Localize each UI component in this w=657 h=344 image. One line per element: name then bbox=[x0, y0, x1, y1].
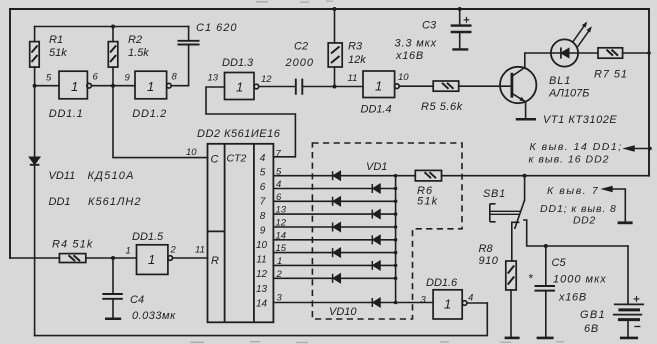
diode VD1 (row 1) bbox=[333, 171, 341, 180]
svg-text:5: 5 bbox=[276, 167, 282, 178]
ground R8 bbox=[505, 337, 520, 340]
wire matrix row 10 (pin 3) to DD1.6 input bbox=[273, 302, 433, 304]
svg-text:5: 5 bbox=[260, 167, 266, 178]
wire C3 leads bbox=[459, 9, 461, 48]
wire R4 to DD1.5 input bbox=[86, 257, 137, 259]
capacitor C5 (electrolytic) bbox=[535, 286, 556, 291]
wire oscillator top node (R1,R2,C1) bbox=[35, 26, 189, 28]
svg-text:DD1.2: DD1.2 bbox=[132, 108, 167, 120]
svg-text:R4 51k: R4 51k bbox=[52, 239, 93, 251]
wire matrix row 5 (pin 12) bbox=[273, 226, 395, 228]
svg-text:3.3 мкх: 3.3 мкх bbox=[395, 38, 438, 50]
wire matrix row 2 (pin 4) bbox=[273, 188, 395, 190]
svg-text:C3: C3 bbox=[422, 20, 437, 32]
wire left frame down to R4 row bbox=[9, 9, 11, 258]
svg-text:1.5k: 1.5k bbox=[128, 47, 149, 59]
pushbutton SB1 bbox=[490, 200, 525, 229]
wire C5 leads bbox=[545, 246, 547, 337]
svg-text:VD11: VD11 bbox=[49, 170, 76, 182]
svg-text:C4: C4 bbox=[130, 294, 144, 306]
svg-text:2: 2 bbox=[276, 269, 283, 280]
wire matrix row 9 (pin 2) bbox=[273, 277, 395, 279]
wire bottom return from DD1.6 bbox=[35, 303, 488, 336]
ground C3 bbox=[452, 48, 468, 50]
diode VD11 bbox=[30, 157, 40, 165]
svg-text:1: 1 bbox=[444, 297, 451, 312]
LED emission arrows bbox=[572, 22, 592, 47]
ground pins 7/8 stub bbox=[618, 221, 633, 224]
wire DD1.5 output to counter R input bbox=[173, 257, 208, 259]
resistor R8 bbox=[506, 261, 516, 290]
wire R5 to VT1 base bbox=[459, 85, 511, 87]
svg-text:1: 1 bbox=[147, 79, 154, 94]
svg-text:к выв. 16 DD2: к выв. 16 DD2 bbox=[529, 154, 610, 166]
svg-text:х16В: х16В bbox=[558, 292, 587, 304]
svg-text:DD1.5: DD1.5 bbox=[132, 231, 164, 243]
wire VT1 emitter to ground bbox=[513, 94, 526, 118]
wire DD1.3 output to C2 bbox=[259, 86, 296, 88]
arrow to pins 7 DD1 / 8 DD2 bbox=[600, 186, 612, 193]
inverter DD1.6 bbox=[433, 290, 467, 319]
svg-text:8: 8 bbox=[172, 72, 178, 83]
battery GB1 bbox=[613, 296, 644, 327]
svg-text:6: 6 bbox=[93, 72, 99, 83]
wire right frame down to switch rail bbox=[648, 9, 650, 176]
svg-text:DD1.4: DD1.4 bbox=[361, 104, 392, 116]
svg-text:GB1: GB1 bbox=[580, 309, 606, 321]
inverter DD1.4 bbox=[363, 71, 399, 98]
svg-text:11: 11 bbox=[195, 245, 205, 256]
resistor R4 bbox=[59, 254, 85, 263]
svg-text:R3: R3 bbox=[348, 41, 363, 53]
resistor R5 bbox=[433, 81, 459, 91]
svg-text:0.033мк: 0.033мк bbox=[132, 310, 176, 322]
svg-text:13: 13 bbox=[208, 73, 219, 84]
svg-text:10: 10 bbox=[398, 72, 409, 83]
svg-text:3: 3 bbox=[421, 295, 427, 306]
svg-text:1: 1 bbox=[126, 246, 131, 257]
wire R1 leads bbox=[34, 27, 36, 86]
svg-text:1: 1 bbox=[277, 256, 282, 267]
resistor R1 bbox=[30, 42, 40, 68]
wire SB1 to R8 bbox=[512, 222, 519, 261]
wire through LED to R7 bbox=[551, 52, 598, 54]
capacitor C2 bbox=[296, 79, 303, 95]
svg-text:4: 4 bbox=[468, 293, 473, 304]
svg-text:К выв. 14 DD1;: К выв. 14 DD1; bbox=[530, 141, 623, 153]
arrow to pins 14 DD1 / 16 DD2 bbox=[622, 145, 634, 152]
svg-text:*: * bbox=[528, 272, 533, 286]
dashed box around diode matrix bbox=[312, 143, 462, 319]
wire DD1.6 output bbox=[467, 302, 487, 304]
wire VT1 collector up to LED bbox=[513, 53, 551, 76]
svg-text:DD1.1: DD1.1 bbox=[49, 108, 84, 120]
wire R7 to right frame bbox=[623, 52, 649, 54]
wire matrix row 3 (pin 6) bbox=[273, 200, 395, 202]
svg-text:х16В: х16В bbox=[395, 50, 424, 62]
svg-text:6: 6 bbox=[276, 192, 282, 203]
svg-text:6: 6 bbox=[260, 182, 266, 193]
svg-text:8: 8 bbox=[260, 211, 266, 222]
resistor R2 bbox=[108, 42, 118, 68]
svg-text:9: 9 bbox=[260, 226, 266, 237]
svg-text:DD1.6: DD1.6 bbox=[426, 277, 458, 289]
svg-text:2: 2 bbox=[170, 245, 177, 256]
svg-text:SB1: SB1 bbox=[483, 188, 506, 200]
wire matrix row 4 (pin 13) bbox=[273, 213, 395, 215]
wire C2 to R3 node to DD1.4 input bbox=[302, 86, 363, 88]
svg-text:12: 12 bbox=[261, 74, 272, 85]
svg-text:VD1: VD1 bbox=[366, 161, 387, 173]
diode VD4 (row 4) bbox=[372, 210, 380, 219]
ground VT1 emitter bbox=[516, 118, 536, 121]
svg-text:51k: 51k bbox=[49, 47, 67, 59]
svg-text:C: C bbox=[211, 154, 219, 166]
svg-text:VD10: VD10 bbox=[329, 306, 357, 318]
svg-text:15: 15 bbox=[276, 243, 287, 254]
diode VD10 (row 10) bbox=[372, 298, 380, 307]
svg-text:АЛ107Б: АЛ107Б bbox=[548, 88, 589, 100]
svg-text:R1: R1 bbox=[49, 34, 63, 46]
inverter DD1.5 bbox=[137, 245, 173, 275]
wire DD1.2 output to C1 bottom bbox=[171, 27, 188, 86]
svg-text:КД510А: КД510А bbox=[88, 170, 135, 182]
capacitor C1 bbox=[178, 41, 200, 45]
svg-text:2000: 2000 bbox=[285, 57, 314, 69]
wire VD11 branch vertical bbox=[34, 86, 36, 336]
wire ground stub pins 7/8 bbox=[612, 189, 626, 222]
svg-text:51k: 51k bbox=[417, 196, 438, 208]
svg-text:6В: 6В bbox=[584, 323, 599, 335]
transistor Q1: VT1 bbox=[500, 67, 536, 103]
svg-text:1: 1 bbox=[71, 79, 78, 94]
LED BL1 bbox=[551, 39, 578, 66]
resistor R3 bbox=[328, 43, 342, 67]
wire matrix row 1 (pin 5) bbox=[273, 175, 415, 177]
resistor R7 bbox=[598, 48, 623, 58]
wire DD1.3 input loop from counter pin 7 bbox=[206, 87, 295, 157]
wire DD1.1 output to DD1.2 input bbox=[91, 85, 135, 87]
svg-text:13: 13 bbox=[276, 205, 287, 216]
wire left supply to R4 bbox=[10, 257, 59, 259]
svg-text:К561ЛН2: К561ЛН2 bbox=[88, 196, 141, 208]
capacitor C4 bbox=[102, 294, 123, 299]
svg-text:VT1 КТ3102Е: VT1 КТ3102Е bbox=[543, 114, 617, 126]
svg-text:12: 12 bbox=[276, 218, 287, 229]
svg-text:1000 мкх: 1000 мкх bbox=[553, 274, 607, 286]
diode VD2 (row 2) bbox=[372, 184, 380, 193]
op-amp U1: inverter DD1.1 bbox=[59, 71, 91, 99]
svg-text:DD2: DD2 bbox=[573, 215, 596, 227]
counter DD2 K561IE16 bbox=[208, 144, 274, 322]
svg-text:7: 7 bbox=[276, 149, 282, 160]
wire C4 leads bbox=[112, 258, 114, 318]
svg-text:11: 11 bbox=[348, 73, 358, 84]
wire DD1.1 input bbox=[35, 85, 59, 87]
ground C4 bbox=[105, 318, 121, 321]
wire DD1.4 output to R5 bbox=[399, 85, 433, 87]
ground GB1 bbox=[620, 337, 638, 340]
svg-text:CT2: CT2 bbox=[227, 153, 247, 165]
svg-text:К выв. 7: К выв. 7 bbox=[547, 185, 599, 197]
wire switch rail R6 to right frame bbox=[442, 175, 650, 177]
svg-text:R2: R2 bbox=[128, 34, 142, 46]
diode VD7 (row 7) bbox=[333, 248, 341, 257]
svg-text:14: 14 bbox=[276, 231, 287, 242]
wire GB1 leads bbox=[627, 246, 629, 337]
wire matrix row 6 (pin 14) bbox=[273, 239, 395, 241]
wire supply stub pins 14/16 bbox=[635, 148, 650, 150]
diode VD5 (row 5) bbox=[333, 223, 341, 232]
svg-text:14: 14 bbox=[256, 298, 268, 309]
capacitor C3 (electrolytic) bbox=[451, 26, 472, 32]
svg-text:DD1: DD1 bbox=[49, 196, 71, 208]
ground C5 bbox=[537, 337, 554, 340]
svg-text:DD1.3: DD1.3 bbox=[222, 57, 254, 69]
inverter DD1.3 bbox=[225, 73, 259, 100]
svg-text:1: 1 bbox=[236, 80, 243, 95]
diode VD9 (row 9) bbox=[333, 274, 341, 283]
wire node to counter C input bbox=[113, 86, 208, 158]
svg-text:12k: 12k bbox=[348, 54, 366, 66]
emitter arrowhead VT1 bbox=[519, 97, 525, 102]
diode VD8 (row 8) bbox=[372, 261, 380, 270]
svg-text:R7 51: R7 51 bbox=[594, 69, 628, 81]
wire SB1 to battery rail bbox=[524, 220, 628, 246]
wire diode bus vertical bbox=[395, 176, 397, 303]
svg-text:7: 7 bbox=[260, 197, 266, 208]
svg-text:4: 4 bbox=[260, 153, 266, 164]
counter output pin labels bbox=[276, 149, 287, 304]
svg-text:4: 4 bbox=[276, 179, 281, 190]
wire matrix row 8 (pin 1) bbox=[273, 264, 395, 266]
svg-text:5: 5 bbox=[46, 73, 52, 84]
svg-text:10: 10 bbox=[186, 147, 197, 158]
scan speck noise bbox=[190, 1, 564, 344]
svg-text:1: 1 bbox=[148, 252, 155, 267]
wire R3 leads bbox=[334, 9, 336, 87]
wire R2 leads bbox=[112, 27, 114, 86]
svg-text:C2: C2 bbox=[294, 41, 308, 53]
diode VD3 (row 3) bbox=[333, 197, 341, 206]
svg-text:C5: C5 bbox=[552, 257, 567, 269]
svg-text:C1 620: C1 620 bbox=[196, 22, 237, 34]
diode VD6 (row 6) bbox=[372, 235, 380, 244]
wire top supply rail bbox=[10, 8, 649, 10]
svg-text:10: 10 bbox=[256, 240, 268, 251]
svg-text:12: 12 bbox=[256, 269, 268, 280]
svg-text:R5 5.6k: R5 5.6k bbox=[421, 101, 463, 113]
wire R8 bottom to ground bbox=[510, 290, 512, 337]
svg-text:DD2 К561ИЕ16: DD2 К561ИЕ16 bbox=[197, 128, 281, 140]
resistor R6 bbox=[415, 170, 441, 181]
svg-text:BL1: BL1 bbox=[549, 75, 571, 87]
inverter DD1.2 bbox=[135, 71, 171, 99]
svg-text:9: 9 bbox=[125, 73, 131, 84]
wire SB1 top lead bbox=[524, 176, 526, 200]
svg-text:1: 1 bbox=[375, 79, 382, 94]
svg-text:3: 3 bbox=[277, 293, 283, 304]
svg-text:11: 11 bbox=[256, 255, 266, 266]
svg-text:R8: R8 bbox=[479, 243, 494, 255]
svg-text:R: R bbox=[211, 255, 219, 267]
wire matrix row 7 (pin 15) bbox=[273, 252, 395, 254]
svg-text:910: 910 bbox=[479, 255, 499, 267]
svg-text:DD1; к выв. 8: DD1; к выв. 8 bbox=[540, 203, 617, 215]
svg-text:13: 13 bbox=[256, 284, 268, 295]
